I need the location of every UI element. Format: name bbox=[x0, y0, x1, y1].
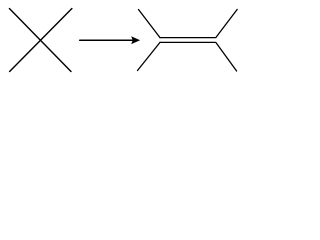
product methyl bond: lower-right bbox=[216, 42, 237, 71]
product methyl bond: upper-right bbox=[216, 9, 237, 37]
product methyl bond: lower-left bbox=[138, 42, 161, 70]
reactant crossed bond: slash stroke bbox=[10, 9, 72, 72]
product C=C double bond: upper line bbox=[160, 37, 215, 39]
reaction arrow shaft bbox=[80, 39, 133, 41]
product C=C double bond: lower line bbox=[160, 41, 215, 43]
reactant crossed bond: backslash stroke bbox=[9, 9, 71, 72]
product methyl bond: upper-left bbox=[139, 10, 161, 38]
reaction arrow head bbox=[131, 36, 140, 44]
